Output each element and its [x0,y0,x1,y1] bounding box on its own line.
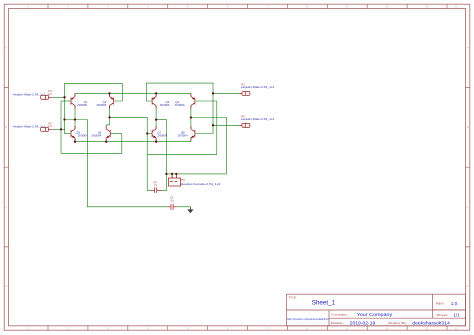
wire P1 net vertical + over-rail 1 + Q2 base leg [65,83,123,133]
node P5 pin2 [175,173,177,175]
svg-text:REV:: REV: [436,301,445,305]
transistor Q2 (2N3906) [110,93,114,108]
node Q7E rail [155,141,157,143]
capacitor C1 [151,187,161,193]
svg-text:5: 5 [187,326,189,330]
node P3 tee [212,92,214,94]
svg-text:8: 8 [307,5,309,9]
transistor Q4 (2N3906) [191,93,195,108]
wire P5 pin stubs [172,174,176,178]
svg-text:Header-Male-2.54_1x1: Header-Male-2.54_1x1 [13,124,46,128]
svg-text:Header-Male-2.54_1x1: Header-Male-2.54_1x1 [13,92,46,96]
transistor Q6 (2N3904) [106,126,110,141]
svg-text:9: 9 [346,326,348,330]
wire P1 pin stub [52,96,65,98]
svg-text:D: D [467,284,469,288]
svg-text:A: A [467,46,469,50]
svg-text:2N3904: 2N3904 [91,134,101,138]
svg-text:Sheet_1: Sheet_1 [312,300,336,307]
svg-text:4: 4 [147,326,149,330]
svg-text:Company:: Company: [331,313,348,317]
svg-text:1u: 1u [154,183,158,187]
wire P4 wire [213,124,239,126]
wire Q3 collector stub [155,106,157,130]
wire P1 net to Q5 base [65,133,72,135]
connector P4 symbol [239,123,250,127]
wire Q2 collector jog to Q6 [106,106,109,130]
wire output node 1 run to C2 [65,120,168,207]
title block outline [287,294,466,326]
node P5 pin1 [171,173,173,175]
svg-text:2N3906: 2N3906 [160,103,170,107]
svg-text:10: 10 [386,5,389,9]
wire Q1 collector stub [74,106,76,120]
svg-text:9: 9 [346,5,348,9]
svg-text:Header-Male-2.54_1x1: Header-Male-2.54_1x1 [241,85,275,89]
wire C2 right lead to ground [177,206,190,208]
svg-text:2N3906: 2N3906 [77,103,87,107]
node out1 left [63,118,65,120]
svg-text:TITLE:: TITLE: [288,296,297,300]
frame tick marks left/right [4,88,470,247]
transistor Q7 (2N3904) [152,126,156,141]
svg-text:http://lceda.cn/deeksharaok314: http://lceda.cn/deeksharaok314 [287,317,329,321]
svg-text:4: 4 [147,5,149,9]
svg-text:2N3904: 2N3904 [178,134,188,138]
transistor Q1 (2N3906) [71,93,75,108]
wire Q5 emitter stub [74,138,76,142]
svg-text:1.0: 1.0 [451,301,458,306]
wire P2 net vertical [60,101,62,153]
wire Q3 emitter stub [155,93,157,96]
svg-text:B: B [467,125,469,129]
node rail Q3E [155,92,157,94]
wire Q4 base wire + cross leg [147,101,217,154]
svg-text:7: 7 [267,326,269,330]
node Q5E rail [74,141,76,143]
svg-text:D: D [5,284,7,288]
wire Q4 emitter stub [190,93,192,96]
svg-text:C: C [5,205,7,209]
connector P5 symbol Header-Female-2.54_1x2 [168,175,180,186]
svg-text:Date:: Date: [331,321,345,325]
svg-text:10: 10 [386,326,389,330]
svg-text:12: 12 [455,5,458,9]
node rail Q2E [108,92,110,94]
wire Q7 base stub [147,133,152,135]
node Q6E rail [105,141,107,143]
node Q7 base [146,132,148,134]
svg-text:11: 11 [426,5,429,9]
svg-text:Sheet:: Sheet: [436,313,448,317]
svg-text:12: 12 [455,326,458,330]
svg-text:deeksharaok314: deeksharaok314 [412,321,450,326]
svg-text:1x1: 1x1 [47,92,52,96]
node P4 tee [212,124,214,126]
wire output node 2 run [191,118,227,174]
svg-text:11: 11 [426,326,429,330]
wire Q6 emitter stub [105,138,107,142]
svg-text:3: 3 [107,326,109,330]
svg-text:1/1: 1/1 [454,312,461,317]
svg-text:Header-Female-2.54_1x2: Header-Female-2.54_1x2 [181,182,221,186]
svg-text:2019-02-19: 2019-02-19 [350,321,376,326]
connector P2 symbol [41,127,52,131]
wire Q1 base wire [61,100,71,102]
wire Q4 collector stub [190,106,192,118]
svg-text:7: 7 [267,5,269,9]
wire Q8 collector stub [190,118,192,129]
svg-text:Header-Male-2.54_1x1: Header-Male-2.54_1x1 [241,117,275,121]
svg-text:8: 8 [307,326,309,330]
svg-text:Drawn By:: Drawn By: [388,321,407,325]
svg-text:1: 1 [27,5,29,9]
transistor Q5 (2N3904) [71,126,75,141]
wire over-rail 2 + Q3 base leg [146,83,213,133]
node Q4C-Q8C tee [190,116,192,118]
wire Q8 emitter stub [190,137,192,141]
connector P1 symbol [41,95,52,99]
wire P2 net bottom run [61,134,122,154]
node P5 rail left [165,173,167,175]
node Q2C-Q6C tee [108,116,110,118]
node P1 junction [63,96,65,98]
ground symbol [187,207,193,214]
wire node run Q2C to Q7 base column [110,117,151,190]
node out1 Q1C-Q5C [74,118,76,120]
svg-text:2: 2 [67,5,69,9]
svg-text:1u: 1u [170,198,174,202]
svg-text:2: 2 [67,326,69,330]
transistor Q8 (2N3904) [191,126,195,141]
svg-text:B: B [5,125,7,129]
wire bottom emitter rail [75,141,191,143]
svg-text:2N3904: 2N3904 [78,134,88,138]
svg-text:3: 3 [107,5,109,9]
capacitor C2 [167,204,177,210]
wire P5 rail [166,173,226,175]
svg-text:A: A [5,46,7,50]
wire P3 wire [213,92,239,94]
transistor Q3 (2N3906) [152,93,156,108]
wire VCC emitter rail [75,92,191,94]
wire Q5 collector stub [74,120,76,130]
node P2 junction [60,128,62,130]
svg-text:1x1: 1x1 [47,124,52,128]
svg-text:2N3906: 2N3906 [175,103,185,107]
wire P2 pin stub [52,128,65,130]
wire Q2 emitter stub [109,93,111,96]
svg-text:6: 6 [227,326,229,330]
svg-text:5: 5 [187,5,189,9]
svg-text:C: C [467,205,469,209]
svg-text:2N3906: 2N3906 [96,103,106,107]
wire Q7 emitter stub [155,138,157,142]
svg-text:1: 1 [27,326,29,330]
wire Q6 base wire [110,133,122,135]
svg-text:2N3904: 2N3904 [157,134,167,138]
wire node run Q3C to P5 rail [156,120,166,191]
wire Q1 emitter stub [74,93,76,96]
node Q3C-Q7C tee [155,118,157,120]
connector P3 symbol [239,91,250,95]
svg-text:6: 6 [227,5,229,9]
svg-text:Your Company: Your Company [357,312,393,317]
